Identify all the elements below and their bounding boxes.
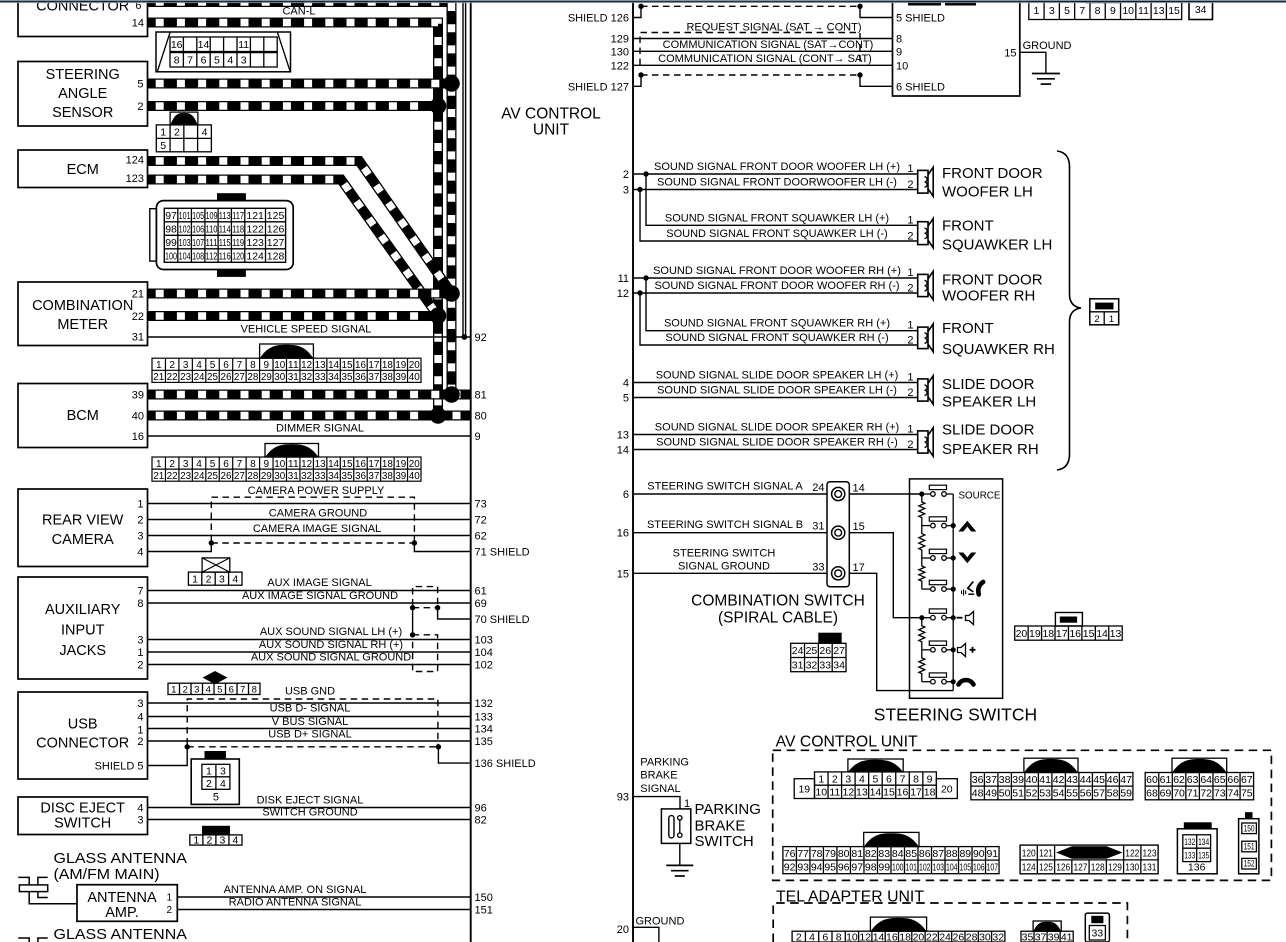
svg-text:1: 1 <box>137 647 143 659</box>
svg-text:37: 37 <box>368 372 379 383</box>
wire steering switch signal A (AV 6 to spiral 24) <box>633 481 827 495</box>
svg-text:32: 32 <box>301 372 312 383</box>
svg-text:18: 18 <box>1042 628 1054 640</box>
AV control unit left boundary line <box>470 0 472 942</box>
steering switch contacts <box>922 485 953 684</box>
svg-text:31: 31 <box>132 332 144 344</box>
svg-text:15: 15 <box>342 360 353 371</box>
svg-text:27: 27 <box>234 372 245 383</box>
svg-text:16: 16 <box>897 787 909 799</box>
AV control unit right boundary line <box>632 0 634 942</box>
svg-text:129: 129 <box>611 34 629 46</box>
svg-text:FRONT: FRONT <box>942 217 994 234</box>
svg-text:90: 90 <box>973 848 985 860</box>
svg-text:1: 1 <box>907 163 913 175</box>
svg-text:19: 19 <box>395 360 406 371</box>
svg-text:111: 111 <box>206 237 218 249</box>
wire CAN-L from connector pin 14 down to BCM junction (twisted/CAN line) <box>148 23 439 416</box>
speaker pin labels slide door speaker RH <box>907 424 913 452</box>
svg-text:4: 4 <box>227 55 233 67</box>
svg-text:60: 60 <box>1146 774 1158 786</box>
steering switch resistor ladder (signal B group) <box>919 618 925 682</box>
svg-text:SIGNAL GROUND: SIGNAL GROUND <box>678 561 770 573</box>
svg-text:64: 64 <box>1200 774 1212 786</box>
AV control unit dashed outline <box>773 750 1272 880</box>
svg-text:JACKS: JACKS <box>59 643 106 659</box>
wire pair rising from speed-signal junction (to top of page) <box>463 0 466 336</box>
svg-text:5: 5 <box>160 140 166 152</box>
svg-text:15: 15 <box>883 787 895 799</box>
connector symbol 40-pin (combination meter) <box>152 344 421 383</box>
svg-text:41: 41 <box>1061 931 1073 942</box>
svg-text:14: 14 <box>132 17 144 29</box>
shield dashed line 127 <box>638 72 862 77</box>
svg-text:12: 12 <box>301 459 312 470</box>
wire USB D+ signal (usb 2 to AV 135) <box>148 729 471 742</box>
svg-text:7: 7 <box>237 459 243 470</box>
svg-text:8: 8 <box>252 685 257 696</box>
BCM box <box>18 384 148 448</box>
svg-text:8: 8 <box>137 598 143 610</box>
svg-text:STEERING: STEERING <box>46 67 120 83</box>
svg-text:4: 4 <box>196 459 202 470</box>
svg-text:50: 50 <box>999 788 1011 800</box>
svg-text:SOUND SIGNAL FRONT DOOR WOOFER: SOUND SIGNAL FRONT DOOR WOOFER RH (-) <box>654 280 899 292</box>
svg-text:117: 117 <box>232 210 244 222</box>
svg-text:22: 22 <box>167 471 178 482</box>
svg-text:49: 49 <box>985 788 997 800</box>
svg-text:INPUT: INPUT <box>61 623 105 639</box>
TEL adapter unit label <box>776 889 925 906</box>
svg-text:4: 4 <box>137 803 143 815</box>
svg-text:32: 32 <box>301 471 312 482</box>
connector strip 8-pin (steering switch) <box>1015 613 1123 641</box>
svg-text:128: 128 <box>267 250 285 262</box>
svg-text:BRAKE: BRAKE <box>640 770 677 782</box>
connector M71 (150-152) <box>1239 812 1259 874</box>
svg-text:34: 34 <box>833 659 845 671</box>
svg-text:GROUND: GROUND <box>636 916 685 928</box>
svg-text:108: 108 <box>192 250 204 262</box>
svg-text:62: 62 <box>1173 774 1185 786</box>
svg-text:SOUND SIGNAL FRONT SQUAWKER RH: SOUND SIGNAL FRONT SQUAWKER RH (-) <box>665 332 888 344</box>
svg-text:33: 33 <box>315 471 326 482</box>
svg-text:32: 32 <box>806 659 818 671</box>
svg-text:1: 1 <box>166 893 172 904</box>
wire spiral 15 to steering switch volume group <box>849 533 922 618</box>
svg-text:151: 151 <box>1244 842 1255 852</box>
svg-text:9: 9 <box>475 431 481 443</box>
svg-text:4: 4 <box>137 712 143 724</box>
svg-text:USB D- SIGNAL: USB D- SIGNAL <box>270 703 351 715</box>
svg-text:CAN-L: CAN-L <box>282 6 315 18</box>
svg-text:7: 7 <box>187 55 193 67</box>
svg-text:USB: USB <box>68 717 98 733</box>
svg-text:99: 99 <box>165 237 177 249</box>
svg-text:3: 3 <box>137 635 143 647</box>
svg-text:6: 6 <box>223 459 229 470</box>
svg-text:10: 10 <box>815 787 827 799</box>
svg-text:6: 6 <box>822 931 828 942</box>
glass antenna symbol bottom (cut) <box>18 938 48 942</box>
svg-text:84: 84 <box>892 848 904 860</box>
svg-text:104: 104 <box>179 250 191 262</box>
svg-text:109: 109 <box>206 210 218 222</box>
svg-text:38: 38 <box>382 372 393 383</box>
svg-text:30: 30 <box>274 372 285 383</box>
svg-text:14: 14 <box>328 459 339 470</box>
svg-text:23: 23 <box>180 471 191 482</box>
svg-text:57: 57 <box>1093 788 1105 800</box>
svg-text:69: 69 <box>1160 788 1172 800</box>
svg-text:STEERING SWITCH SIGNAL A: STEERING SWITCH SIGNAL A <box>647 481 803 493</box>
svg-text:SOUND SIGNAL FRONT SQUAWKER LH: SOUND SIGNAL FRONT SQUAWKER LH (-) <box>666 228 887 240</box>
junction CAN-L / BCM 40 <box>430 407 447 424</box>
svg-text:CAMERA POWER SUPPLY: CAMERA POWER SUPPLY <box>248 485 385 497</box>
svg-text:136: 136 <box>1188 862 1206 874</box>
svg-text:WOOFER RH: WOOFER RH <box>942 288 1035 305</box>
connector M67 (60-75) <box>1145 758 1253 800</box>
wire aux sound signal ground (aux 2 to AV 102) <box>148 652 471 665</box>
svg-text:54: 54 <box>1053 788 1065 800</box>
wire front squawker LH (-) label <box>666 228 887 240</box>
svg-text:22: 22 <box>926 931 938 942</box>
svg-text:44: 44 <box>1080 774 1092 786</box>
svg-text:116: 116 <box>219 250 231 262</box>
wire front door woofer RH (+) <box>633 265 918 278</box>
svg-text:58: 58 <box>1107 788 1119 800</box>
svg-text:52: 52 <box>1026 788 1038 800</box>
svg-text:21: 21 <box>132 289 144 301</box>
svg-text:123: 123 <box>246 237 264 249</box>
shield drain dashed line (USB) <box>187 746 438 748</box>
svg-text:102: 102 <box>919 862 931 874</box>
svg-text:SOUND SIGNAL FRONT SQUAWKER RH: SOUND SIGNAL FRONT SQUAWKER RH (+) <box>664 318 890 330</box>
svg-text:(SPIRAL CABLE): (SPIRAL CABLE) <box>718 610 838 627</box>
svg-text:SPEAKER RH: SPEAKER RH <box>942 441 1039 458</box>
shield junction dot left (camera) <box>209 540 214 545</box>
svg-text:67: 67 <box>1241 774 1253 786</box>
svg-text:20: 20 <box>617 924 629 936</box>
wire ECM pin 124 diagonal to CAN-H (twisted/CAN line) <box>148 161 452 294</box>
svg-text:1: 1 <box>1109 314 1114 325</box>
wire spiral 17 to steering switch common rail <box>849 573 953 690</box>
svg-text:17: 17 <box>368 360 379 371</box>
svg-text:SHIELD 5: SHIELD 5 <box>95 761 144 773</box>
svg-text:96: 96 <box>838 862 850 874</box>
svg-text:16: 16 <box>171 39 183 51</box>
svg-text:37: 37 <box>368 471 379 482</box>
svg-text:AUX IMAGE SIGNAL: AUX IMAGE SIGNAL <box>267 577 372 589</box>
svg-text:104: 104 <box>475 647 493 659</box>
svg-text:63: 63 <box>1187 774 1199 786</box>
speaker pin labels slide door speaker LH <box>907 372 913 400</box>
svg-text:26: 26 <box>953 931 965 942</box>
svg-text:SOURCE: SOURCE <box>959 491 1001 502</box>
svg-text:13: 13 <box>315 459 326 470</box>
svg-text:1: 1 <box>193 835 199 847</box>
svg-text:USB D+ SIGNAL: USB D+ SIGNAL <box>268 729 351 741</box>
svg-text:8: 8 <box>913 773 919 785</box>
parking brake switch label <box>695 801 761 850</box>
steering switch title <box>874 705 1037 725</box>
spiral cable connector (vertical, 3 terminals) <box>827 482 849 587</box>
svg-text:2: 2 <box>174 126 180 138</box>
wire vehicle speed signal (meter 31 to AV 92) <box>148 324 471 338</box>
svg-text:115: 115 <box>219 237 231 249</box>
svg-text:1: 1 <box>160 126 166 138</box>
svg-text:65: 65 <box>1214 774 1226 786</box>
svg-text:83: 83 <box>878 848 890 860</box>
svg-text:76: 76 <box>784 848 796 860</box>
connector symbol 5-pin (steering angle sensor) <box>156 112 211 152</box>
svg-text:127: 127 <box>1073 862 1087 874</box>
svg-text:CAMERA GROUND: CAMERA GROUND <box>269 508 367 520</box>
svg-text:AUXILIARY: AUXILIARY <box>45 602 121 618</box>
svg-text:AV CONTROL: AV CONTROL <box>501 106 601 123</box>
svg-text:5: 5 <box>214 55 220 67</box>
connector M77 (33, cut at bottom) <box>1085 913 1109 942</box>
svg-text:17: 17 <box>368 459 379 470</box>
svg-text:5: 5 <box>217 685 222 696</box>
svg-text:1: 1 <box>1034 5 1040 17</box>
svg-text:13: 13 <box>1110 628 1122 640</box>
svg-text:59: 59 <box>1120 788 1132 800</box>
svg-text:SOUND SIGNAL FRONT DOOR WOOFER: SOUND SIGNAL FRONT DOOR WOOFER RH (+) <box>653 265 901 277</box>
svg-text:13: 13 <box>1153 5 1165 17</box>
wire antenna amp on signal (amp 1 to AV 150) <box>177 884 470 897</box>
svg-text:14: 14 <box>1096 628 1108 640</box>
steering switch right common rail <box>952 494 954 691</box>
svg-text:150: 150 <box>475 892 493 904</box>
parking brake switch box <box>661 809 690 844</box>
junction CAN-L / steering 2 <box>430 98 447 115</box>
svg-text:DISC EJECT: DISC EJECT <box>40 801 125 817</box>
svg-text:AUX IMAGE SIGNAL GROUND: AUX IMAGE SIGNAL GROUND <box>242 590 398 602</box>
svg-text:5: 5 <box>213 792 219 804</box>
svg-text:28: 28 <box>966 931 978 942</box>
svg-text:SOUND SIGNAL SLIDE DOOR SPEAKE: SOUND SIGNAL SLIDE DOOR SPEAKER RH (-) <box>656 437 898 449</box>
wire front squawker RH (+) label <box>664 318 890 330</box>
wire slide door speaker LH (-) <box>633 385 918 398</box>
connector icon 2|1 (speaker harness) <box>1090 299 1119 325</box>
svg-text:1: 1 <box>171 685 176 696</box>
svg-text:14: 14 <box>328 360 339 371</box>
wire USB GND (usb 3 to AV 132) <box>148 686 471 704</box>
svg-text:87: 87 <box>932 848 944 860</box>
svg-text:66: 66 <box>1227 774 1239 786</box>
svg-text:75: 75 <box>1241 788 1253 800</box>
svg-text:92: 92 <box>784 862 796 874</box>
svg-text:METER: METER <box>57 317 108 333</box>
svg-text:STEERING SWITCH: STEERING SWITCH <box>673 547 776 559</box>
svg-text:53: 53 <box>1039 788 1051 800</box>
svg-text:AUX SOUND SIGNAL GROUND: AUX SOUND SIGNAL GROUND <box>251 652 411 664</box>
svg-text:V BUS SIGNAL: V BUS SIGNAL <box>272 716 348 728</box>
svg-text:11: 11 <box>1138 5 1149 17</box>
svg-text:7: 7 <box>237 360 243 371</box>
shield drain dashed segment (aux image) <box>413 607 438 609</box>
wire CAN-H from connector pin 6 down to BCM junction (twisted/CAN line) <box>148 2 452 395</box>
svg-text:15: 15 <box>342 459 353 470</box>
svg-text:135: 135 <box>1198 851 1209 861</box>
svg-text:128: 128 <box>1091 862 1105 874</box>
svg-text:21: 21 <box>153 372 164 383</box>
svg-text:43: 43 <box>1066 774 1078 786</box>
svg-text:8: 8 <box>836 931 842 942</box>
svg-text:126: 126 <box>1056 862 1070 874</box>
svg-text:45: 45 <box>1093 774 1105 786</box>
svg-text:FRONT: FRONT <box>942 320 994 337</box>
svg-text:80: 80 <box>838 848 850 860</box>
svg-text:FRONT DOOR: FRONT DOOR <box>942 272 1043 289</box>
svg-text:2: 2 <box>907 439 913 451</box>
svg-text:98: 98 <box>865 862 877 874</box>
wire radio antenna signal (amp 2 to AV 151) <box>177 897 470 910</box>
svg-text:94: 94 <box>811 862 823 874</box>
svg-text:15: 15 <box>853 521 865 533</box>
svg-text:FRONT DOOR: FRONT DOOR <box>942 165 1043 182</box>
svg-text:5: 5 <box>1064 5 1070 17</box>
svg-text:124: 124 <box>246 250 264 262</box>
svg-text:11: 11 <box>618 273 629 285</box>
shield junction dot right (camera) <box>412 540 417 545</box>
svg-text:102: 102 <box>179 223 191 235</box>
svg-text:SWITCH GROUND: SWITCH GROUND <box>262 807 357 819</box>
speaker symbol front squawker RH <box>918 324 934 352</box>
svg-text:BCM: BCM <box>67 408 99 424</box>
wire steering switch signal B (AV 16 to spiral 31) <box>633 519 827 533</box>
speaker symbol front squawker LH <box>918 219 934 248</box>
connector symbol 5-pin (USB) <box>191 751 239 804</box>
svg-text:RADIO ANTENNA SIGNAL: RADIO ANTENNA SIGNAL <box>229 897 362 909</box>
svg-text:2: 2 <box>206 778 212 790</box>
svg-text:105: 105 <box>192 210 204 222</box>
svg-text:86: 86 <box>919 848 931 860</box>
wire switch to ground <box>679 843 681 865</box>
curly brace grouping speakers <box>1057 151 1081 470</box>
svg-text:AUX SOUND SIGNAL RH (+): AUX SOUND SIGNAL RH (+) <box>259 639 403 651</box>
svg-text:PARKING: PARKING <box>640 757 689 769</box>
wire communication signal cont-sat (AV 122 to sat 10) <box>633 53 893 65</box>
svg-text:5: 5 <box>137 79 143 91</box>
svg-text:82: 82 <box>475 815 487 827</box>
svg-text:72: 72 <box>475 515 487 527</box>
label CAN-L <box>282 6 315 18</box>
svg-text:68: 68 <box>1146 788 1158 800</box>
svg-text:106: 106 <box>973 862 985 874</box>
svg-text:16: 16 <box>355 459 366 470</box>
svg-text:134: 134 <box>475 724 493 736</box>
svg-text:8: 8 <box>250 459 256 470</box>
wire front door woofer LH (-) <box>633 177 918 190</box>
junction node at AV pin 92 <box>461 334 467 340</box>
svg-text:6: 6 <box>223 360 229 371</box>
svg-text:ANTENNA AMP. ON SIGNAL: ANTENNA AMP. ON SIGNAL <box>224 884 367 896</box>
svg-text:1: 1 <box>907 320 913 332</box>
junction CAN-L / meter 22 / ECM 123 <box>430 307 447 324</box>
svg-text:9: 9 <box>1110 5 1116 17</box>
wire aux shield to AV 70 shield <box>438 608 471 619</box>
steering switch box <box>910 479 1003 698</box>
svg-text:133: 133 <box>475 712 493 724</box>
svg-text:SOUND SIGNAL FRONT SQUAWKER LH: SOUND SIGNAL FRONT SQUAWKER LH (+) <box>665 212 889 224</box>
svg-text:8: 8 <box>896 34 902 46</box>
wire ground (AV 20, bottom cut) <box>633 916 684 942</box>
svg-text:56: 56 <box>1080 788 1092 800</box>
speaker pin labels front door woofer LH <box>907 163 913 191</box>
connector (data link) box, cut off at top <box>18 0 148 37</box>
svg-text:SQUAWKER LH: SQUAWKER LH <box>942 237 1052 254</box>
svg-text:46: 46 <box>1107 774 1119 786</box>
svg-text:34: 34 <box>328 372 339 383</box>
wire USB shield (usb shield-5 to AV 136 shield) <box>148 747 471 766</box>
svg-text:24: 24 <box>812 482 824 494</box>
svg-text:73: 73 <box>475 499 487 511</box>
svg-text:ANTENNA: ANTENNA <box>87 890 157 906</box>
svg-text:8: 8 <box>1095 5 1101 17</box>
svg-text:16: 16 <box>617 528 629 540</box>
wire camera ground (camera 2 to AV 72) <box>148 508 471 520</box>
svg-text:97: 97 <box>851 862 863 874</box>
svg-text:37: 37 <box>985 774 997 786</box>
junction CAN-H / meter 21 / ECM 124 <box>443 285 460 302</box>
wire front door woofer RH (-) <box>633 280 918 293</box>
svg-text:19: 19 <box>1029 628 1041 640</box>
svg-text:71: 71 <box>1187 788 1199 800</box>
svg-text:134: 134 <box>1198 837 1209 847</box>
svg-text:16: 16 <box>1069 628 1081 640</box>
svg-text:41: 41 <box>1039 774 1051 786</box>
svg-text:2: 2 <box>137 736 143 748</box>
svg-text:10: 10 <box>896 60 908 72</box>
connector symbol 32-pin (ECM) <box>150 193 293 277</box>
svg-text:SENSOR: SENSOR <box>52 105 113 121</box>
svg-text:SIGNAL: SIGNAL <box>640 783 680 795</box>
svg-text:REAR VIEW: REAR VIEW <box>42 513 124 529</box>
svg-text:39: 39 <box>1048 931 1060 942</box>
svg-text:7: 7 <box>1079 5 1085 17</box>
connector M65 (1-20) <box>794 759 957 799</box>
shield dashed box around camera wires <box>211 497 414 541</box>
connector symbol 8-pin (aux jacks) <box>168 671 260 696</box>
ECM box <box>18 150 148 188</box>
wire slide door speaker RH (-) <box>633 437 918 450</box>
svg-text:38: 38 <box>382 471 393 482</box>
wire aux sound signal RH(+) (aux 1 to AV 104) <box>148 639 471 652</box>
svg-text:23: 23 <box>180 372 191 383</box>
svg-text:SQUAWKER RH: SQUAWKER RH <box>942 341 1055 358</box>
svg-text:9: 9 <box>896 46 902 58</box>
svg-text:40: 40 <box>409 471 420 482</box>
svg-text:13: 13 <box>856 787 868 799</box>
svg-text:2: 2 <box>796 931 802 942</box>
svg-text:2: 2 <box>137 660 143 672</box>
connector symbol 8-pin (spiral cable) <box>791 633 846 672</box>
svg-text:18: 18 <box>924 787 936 799</box>
svg-text:132: 132 <box>1184 837 1195 847</box>
svg-text:103: 103 <box>933 862 945 874</box>
antenna amp box <box>77 885 177 922</box>
connector box 34 (sat tuner) <box>1189 1 1213 20</box>
svg-text:3: 3 <box>137 815 143 827</box>
window top edge bar <box>0 0 1286 3</box>
svg-text:71 SHIELD: 71 SHIELD <box>475 547 530 559</box>
wire aux image signal ground (aux 8 to AV 69) <box>148 590 471 603</box>
svg-text:26: 26 <box>220 372 231 383</box>
shield dashed line 126 <box>638 4 862 9</box>
svg-text:GLASS ANTENNA: GLASS ANTENNA <box>54 926 188 942</box>
